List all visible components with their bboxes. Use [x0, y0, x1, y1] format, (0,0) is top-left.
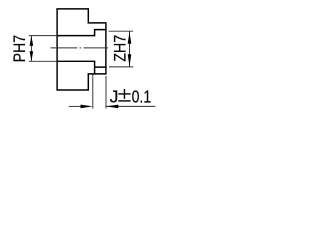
wire bore step lower [94, 67, 96, 74]
svg-text:J: J [110, 87, 119, 107]
wire ext left [92, 75, 94, 109]
dimension J [69, 75, 156, 109]
label J±0.1 [110, 87, 152, 107]
wire ext bottom [109, 66, 133, 68]
wire dim line right tail [106, 105, 155, 107]
arrow up [30, 36, 34, 46]
plus-minus symbol [118, 89, 130, 101]
wire bore top [57, 30, 106, 36]
wire outer profile [57, 9, 106, 90]
dimension ZH7 [109, 31, 134, 67]
dimension PH7 [29, 36, 57, 62]
svg-text:PH7: PH7 [11, 35, 29, 63]
svg-text:ZH7: ZH7 [112, 35, 130, 62]
arrow up [128, 32, 132, 44]
arrow right [81, 105, 93, 109]
wire ext top [29, 35, 57, 37]
arrow left [106, 105, 118, 109]
wire ext right [105, 76, 107, 109]
svg-text:0.1: 0.1 [132, 87, 152, 107]
wire dim line [129, 31, 131, 67]
arrow down [128, 54, 132, 66]
centerline [51, 47, 108, 49]
wire dim line left [69, 105, 84, 107]
wire dim line [30, 36, 32, 62]
arrow down [30, 51, 34, 61]
wire bore bottom [57, 61, 106, 67]
part outline [57, 9, 106, 90]
wire ext top [109, 30, 134, 32]
wire ext bottom [29, 60, 57, 62]
